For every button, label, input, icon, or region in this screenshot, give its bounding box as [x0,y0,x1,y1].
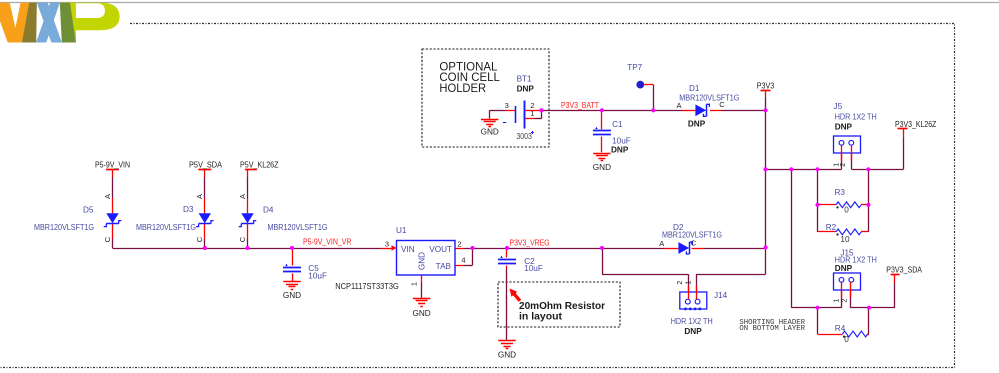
svg-text:R4: R4 [835,324,846,333]
svg-text:HOLDER: HOLDER [439,81,486,95]
svg-text:in layout: in layout [519,312,563,323]
svg-text:20mOhm Resistor: 20mOhm Resistor [519,301,605,312]
svg-text:D4: D4 [263,205,274,214]
svg-text:GND: GND [412,309,430,318]
svg-text:VIN: VIN [401,245,415,254]
svg-text:C: C [691,239,697,248]
svg-text:R3: R3 [835,188,846,197]
svg-text:MBR120VLSFT1G: MBR120VLSFT1G [136,223,196,232]
svg-text:MBR120VLSFT1G: MBR120VLSFT1G [268,223,328,232]
svg-text:U1: U1 [396,226,407,235]
svg-text:1: 1 [530,109,534,118]
svg-text:A: A [676,101,681,110]
svg-text:10uF: 10uF [524,264,543,273]
svg-text:VOUT: VOUT [429,245,452,254]
svg-text:P5V_SDA: P5V_SDA [189,161,222,170]
svg-text:1: 1 [833,298,840,302]
svg-text:DNP: DNP [835,264,853,273]
svg-text:P5-9V_VIN_VR: P5-9V_VIN_VR [303,238,352,247]
svg-text:DNP: DNP [684,327,702,336]
svg-text:10uF: 10uF [308,272,327,281]
svg-text:P3V3_SDA: P3V3_SDA [886,265,922,274]
svg-text:GND: GND [283,291,301,300]
svg-text:TP7: TP7 [627,63,642,72]
svg-text:DNP: DNP [611,145,629,154]
svg-text:2: 2 [840,163,847,167]
svg-text:J14: J14 [714,291,728,300]
svg-text:MBR120VLSFT1G: MBR120VLSFT1G [34,223,94,232]
svg-text:P5V_KL26Z: P5V_KL26Z [240,161,279,170]
svg-text:P3V3_VREG: P3V3_VREG [510,239,550,248]
svg-text:3: 3 [505,101,509,110]
svg-text:MBR120VLSFT1G: MBR120VLSFT1G [679,94,739,103]
svg-text:DNP: DNP [688,120,706,129]
svg-text:C: C [103,236,112,242]
svg-text:P3V3_KL26Z: P3V3_KL26Z [895,120,936,129]
svg-text:10: 10 [840,235,850,244]
svg-text:HDR 1X2 TH: HDR 1X2 TH [835,112,877,121]
svg-text:2: 2 [457,239,461,248]
svg-text:D5: D5 [83,205,94,214]
svg-text:BT1: BT1 [517,74,532,83]
svg-text:1: 1 [686,281,693,285]
svg-text:TAB: TAB [436,262,452,271]
svg-text:D1: D1 [689,84,700,93]
svg-text:A: A [195,194,204,199]
svg-text:P5-9V_VIN: P5-9V_VIN [95,160,130,169]
svg-text:P3V3: P3V3 [757,81,775,90]
svg-text:C: C [719,100,725,109]
svg-text:GND: GND [481,128,499,137]
svg-text:10uF: 10uF [612,136,631,145]
svg-text:GND: GND [498,350,516,359]
svg-text:3003: 3003 [516,132,532,141]
svg-text:J5: J5 [834,102,843,111]
svg-text:DNP: DNP [835,123,853,132]
svg-text:GND: GND [593,163,611,172]
svg-text:D3: D3 [183,205,194,214]
svg-text:A: A [238,194,247,199]
svg-text:4: 4 [461,256,465,265]
svg-text:C: C [238,236,247,242]
svg-text:3: 3 [385,239,389,248]
svg-text:2: 2 [841,298,848,302]
svg-text:DNP: DNP [517,85,535,94]
svg-text:1: 1 [410,282,419,286]
svg-text:A: A [659,239,664,248]
svg-text:P3V3_BATT: P3V3_BATT [561,101,599,110]
svg-text:A: A [103,194,112,199]
svg-text:NCP1117ST33T3G: NCP1117ST33T3G [335,282,399,291]
svg-text:C: C [195,236,204,242]
svg-text:GND: GND [418,252,427,270]
svg-text:HDR 1X2 TH: HDR 1X2 TH [671,317,713,326]
svg-text:R2: R2 [826,223,837,232]
svg-text:0: 0 [844,206,849,215]
svg-text:0: 0 [844,335,849,344]
svg-text:C1: C1 [612,120,623,129]
svg-text:2: 2 [677,281,684,285]
svg-text:ON BOTTOM LAYER: ON BOTTOM LAYER [739,325,805,333]
